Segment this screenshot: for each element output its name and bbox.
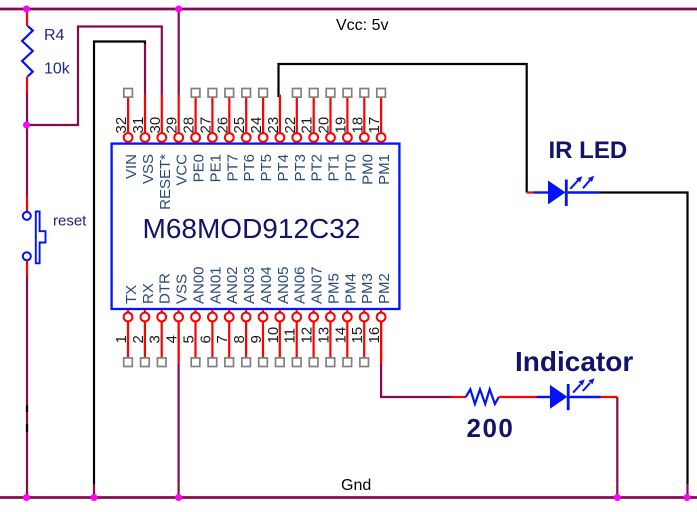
resistor 200 bbox=[466, 389, 499, 404]
pin 7 (AN02) bottom bbox=[214, 266, 241, 366]
wire Vcc rail to VCC pin 29 bbox=[178, 9, 180, 95]
svg-text:PT7: PT7 bbox=[224, 154, 241, 182]
svg-text:20: 20 bbox=[316, 117, 333, 134]
svg-text:AN06: AN06 bbox=[292, 266, 309, 304]
wire black segment b bbox=[26, 424, 28, 432]
svg-text:5: 5 bbox=[181, 335, 198, 343]
svg-text:PE0: PE0 bbox=[191, 154, 208, 182]
diode IR LED bbox=[534, 176, 600, 206]
pin 28 (PE0) top bbox=[181, 89, 208, 183]
svg-text:200: 200 bbox=[467, 413, 515, 443]
pin 32 (VIN) top bbox=[113, 89, 140, 180]
wire right edge maroon stub at Gnd bbox=[686, 484, 688, 497]
svg-text:30: 30 bbox=[147, 117, 164, 134]
svg-text:9: 9 bbox=[248, 335, 265, 343]
svg-text:14: 14 bbox=[332, 327, 349, 344]
wire Vcc rail to R4 top (red) bbox=[26, 9, 28, 26]
wire Vcc rail (top) bbox=[0, 8, 697, 11]
svg-text:AN03: AN03 bbox=[241, 266, 258, 304]
svg-text:Vcc: 5v: Vcc: 5v bbox=[336, 17, 388, 34]
wire IR LED anode stub (red) bbox=[527, 191, 534, 193]
svg-text:PT5: PT5 bbox=[258, 154, 275, 182]
svg-text:VCC: VCC bbox=[174, 154, 191, 186]
pin 22 (PT3) top bbox=[282, 89, 309, 182]
pin 6 (AN01) bottom bbox=[197, 266, 224, 366]
svg-text:AN02: AN02 bbox=[224, 266, 241, 304]
svg-text:VSS: VSS bbox=[174, 274, 191, 304]
svg-text:28: 28 bbox=[181, 117, 198, 134]
svg-text:18: 18 bbox=[349, 117, 366, 134]
svg-text:27: 27 bbox=[197, 117, 214, 134]
node junction (687,497.5) bbox=[684, 494, 691, 501]
wire black segment a bbox=[26, 406, 28, 413]
node junction (26.5,9) bbox=[23, 6, 30, 13]
svg-text:PE1: PE1 bbox=[207, 154, 224, 182]
svg-text:PT0: PT0 bbox=[342, 154, 359, 182]
pin 1 (TX) bottom bbox=[113, 285, 140, 367]
svg-text:24: 24 bbox=[248, 117, 265, 134]
node junction (26.5,125) bbox=[23, 122, 30, 129]
svg-text:1: 1 bbox=[113, 335, 130, 343]
svg-text:10: 10 bbox=[265, 327, 282, 344]
wire LED cathode stub (red) bbox=[601, 396, 617, 398]
pin 18 (PM0) top bbox=[349, 89, 376, 185]
op-amp U1 chip body M68MOD912C32 bbox=[112, 144, 400, 309]
svg-text:PT4: PT4 bbox=[275, 154, 292, 182]
svg-text:AN04: AN04 bbox=[258, 266, 275, 304]
pin 30 (RESET*) top bbox=[147, 95, 174, 210]
wire R4 to junction (maroon) bbox=[26, 93, 28, 127]
pin 12 (AN07) bottom bbox=[299, 266, 326, 366]
pin 14 (PM4) bottom bbox=[332, 273, 359, 366]
svg-text:12: 12 bbox=[299, 327, 316, 344]
wire PT4 pin 23 to IR LED (black) bbox=[279, 64, 527, 193]
node junction (178.7,9) bbox=[175, 6, 182, 13]
pin 17 (PM1) top bbox=[366, 89, 393, 185]
pin 10 (AN05) bottom bbox=[265, 266, 292, 366]
pin 5 (AN00) bottom bbox=[181, 266, 208, 366]
wire black loop maroon stub at Gnd bbox=[93, 484, 95, 497]
svg-text:DTR: DTR bbox=[157, 273, 174, 304]
wire switch to Gnd (maroon) bbox=[26, 277, 28, 498]
wire Gnd to VSS pin 31 (black loop) bbox=[94, 42, 145, 485]
svg-text:TX: TX bbox=[123, 285, 140, 304]
svg-text:VSS: VSS bbox=[140, 154, 157, 184]
pin 8 (AN03) bottom bbox=[231, 266, 258, 366]
wire switch top stub (red) bbox=[26, 196, 28, 213]
svg-text:AN00: AN00 bbox=[191, 266, 208, 304]
svg-text:PT1: PT1 bbox=[326, 154, 343, 182]
svg-text:2: 2 bbox=[130, 335, 147, 343]
svg-text:PM3: PM3 bbox=[359, 273, 376, 304]
svg-text:reset: reset bbox=[53, 213, 87, 230]
node junction (26.5,497.5) bbox=[23, 494, 30, 501]
pin 16 (PM2) bottom bbox=[366, 273, 393, 361]
wire resistor left stub (red) bbox=[452, 396, 467, 398]
wire IR LED cathode to right edge (black) bbox=[599, 193, 687, 485]
pin 27 (PE1) top bbox=[197, 89, 224, 183]
svg-text:13: 13 bbox=[315, 327, 332, 344]
svg-text:PT3: PT3 bbox=[292, 154, 309, 182]
svg-text:VIN: VIN bbox=[123, 154, 140, 179]
pin 13 (PM5) bottom bbox=[315, 273, 342, 366]
pin 3 (DTR) bottom bbox=[147, 273, 174, 366]
svg-text:25: 25 bbox=[231, 117, 248, 134]
switch reset terminal bottom bbox=[23, 252, 31, 260]
pin 25 (PT6) top bbox=[231, 89, 258, 182]
pin 19 (PT0) top bbox=[332, 89, 359, 182]
svg-text:PM0: PM0 bbox=[359, 154, 376, 185]
switch reset actuator bbox=[36, 211, 46, 263]
pin 20 (PT1) top bbox=[316, 89, 343, 182]
switch reset terminal top bbox=[23, 212, 31, 220]
wire R4 bottom (red) bbox=[26, 77, 28, 93]
svg-text:19: 19 bbox=[332, 117, 349, 134]
pin 26 (PT7) top bbox=[214, 89, 241, 182]
node junction (178.6,497.5) bbox=[175, 494, 182, 501]
svg-text:PM4: PM4 bbox=[342, 273, 359, 304]
svg-text:6: 6 bbox=[197, 335, 214, 343]
wire pin 16 red stub bbox=[380, 322, 382, 364]
wire PM2 pin 16 to resistor 200 (maroon) bbox=[381, 364, 451, 398]
svg-text:PM1: PM1 bbox=[376, 154, 393, 185]
svg-text:23: 23 bbox=[265, 117, 282, 134]
svg-text:22: 22 bbox=[282, 117, 299, 134]
diode Indicator LED bbox=[537, 378, 601, 410]
pin 4 (VSS) bottom bbox=[164, 274, 191, 361]
svg-text:AN07: AN07 bbox=[309, 266, 326, 304]
wire resistor to LED (red) bbox=[499, 396, 537, 398]
resistor R4 bbox=[22, 26, 33, 77]
svg-text:PM5: PM5 bbox=[325, 273, 342, 304]
wire junction to switch (maroon) bbox=[26, 125, 28, 196]
svg-text:PT2: PT2 bbox=[309, 154, 326, 182]
svg-text:17: 17 bbox=[366, 117, 383, 134]
svg-text:IR LED: IR LED bbox=[549, 137, 628, 164]
pin 24 (PT5) top bbox=[248, 89, 275, 182]
wire switch bottom stub (red) bbox=[26, 260, 28, 276]
pin 23 (PT4) top bbox=[265, 95, 292, 182]
svg-text:Gnd: Gnd bbox=[341, 477, 371, 494]
svg-text:26: 26 bbox=[214, 117, 231, 134]
pin 2 (RX) bottom bbox=[130, 283, 157, 366]
wire pin 4 VSS to Gnd (red then maroon) bbox=[178, 322, 180, 364]
svg-text:8: 8 bbox=[231, 335, 248, 343]
svg-text:7: 7 bbox=[214, 335, 231, 343]
pin 11 (AN06) bottom bbox=[282, 266, 309, 366]
svg-text:3: 3 bbox=[147, 335, 164, 343]
wire maroon drop to pin 31 bbox=[144, 44, 146, 95]
pin 31 (VSS) top bbox=[130, 95, 157, 185]
node junction (94,497.5) bbox=[91, 494, 98, 501]
svg-text:10k: 10k bbox=[44, 61, 71, 78]
svg-text:29: 29 bbox=[164, 117, 181, 134]
wire down to Gnd (maroon) bbox=[616, 397, 618, 497]
svg-text:32: 32 bbox=[113, 117, 130, 134]
svg-text:31: 31 bbox=[130, 117, 147, 134]
wire Gnd rail (bottom) bbox=[0, 496, 697, 499]
svg-text:RX: RX bbox=[140, 283, 157, 304]
svg-text:RESET*: RESET* bbox=[157, 154, 174, 210]
pin 21 (PT2) top bbox=[299, 89, 326, 182]
svg-text:15: 15 bbox=[349, 327, 366, 344]
node junction (617.3,497.5) bbox=[614, 494, 621, 501]
pin 15 (PM3) bottom bbox=[349, 273, 376, 366]
pin 29 (VCC) top bbox=[164, 95, 191, 186]
svg-text:21: 21 bbox=[299, 117, 316, 134]
svg-text:11: 11 bbox=[282, 328, 299, 344]
svg-text:PT6: PT6 bbox=[241, 154, 258, 182]
wire junction to RESET* pin 30 bbox=[26, 27, 162, 126]
svg-text:R4: R4 bbox=[44, 27, 65, 44]
svg-text:AN01: AN01 bbox=[207, 266, 224, 304]
svg-text:AN05: AN05 bbox=[275, 266, 292, 304]
pin 9 (AN04) bottom bbox=[248, 266, 275, 366]
svg-text:M68MOD912C32: M68MOD912C32 bbox=[143, 213, 361, 244]
svg-text:Indicator: Indicator bbox=[515, 346, 633, 377]
svg-text:PM2: PM2 bbox=[376, 273, 393, 304]
